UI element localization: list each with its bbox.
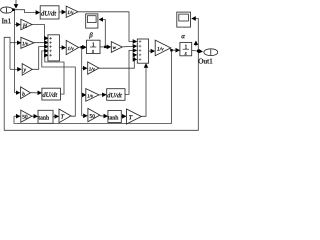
wire tanh2 to T2 gain bbox=[121, 115, 126, 117]
wire arrow into rowC-left 50 gain bbox=[14, 115, 20, 117]
denominator int1 bbox=[92, 50, 94, 53]
wire arrow into H gain bbox=[15, 24, 20, 26]
wire rowC-left 50 to tanh1 bbox=[32, 115, 37, 117]
label beta bbox=[89, 32, 92, 38]
value gain3 bbox=[68, 47, 74, 50]
integrator 1/s first bbox=[87, 40, 101, 53]
value rowB-right bbox=[87, 94, 93, 97]
value dU/dt 3 bbox=[107, 93, 122, 98]
fraction bar int2 bbox=[183, 48, 189, 51]
value rowA-left bbox=[23, 69, 26, 73]
saturation tanh 2 bbox=[108, 111, 121, 123]
wire rowB-left gain to dUdt2 bbox=[30, 92, 41, 94]
gain rowB-left bbox=[21, 87, 31, 99]
junction after gain3 bbox=[81, 46, 83, 48]
fraction bar int1 bbox=[90, 46, 96, 49]
wire dUdt3 chain to sum2 input3 bbox=[125, 50, 137, 94]
wire beta scope tap bbox=[99, 20, 105, 47]
derivative dU/dt 3 bbox=[107, 89, 125, 101]
wire arrow into gain2 from left bus bbox=[10, 42, 21, 44]
junction on int2 input bbox=[170, 49, 172, 51]
value gain2 bbox=[22, 42, 28, 45]
scope beta bbox=[86, 14, 98, 28]
value dU/dt 2 bbox=[43, 92, 58, 97]
gain after int1 bbox=[111, 42, 122, 53]
scope beta screen bbox=[88, 16, 97, 23]
value tanh2 bbox=[108, 115, 118, 119]
gain feedback 2 bbox=[21, 37, 34, 48]
wire gain2 to sum1 input2 bbox=[34, 42, 48, 44]
wire gain3 to int1 bbox=[79, 46, 86, 48]
gain H bbox=[21, 19, 32, 29]
wire dUdt2 chain to sum1 input5 bbox=[45, 55, 64, 94]
wire arrow into rowA-left gain bbox=[10, 68, 21, 70]
plus signs sum1 bbox=[49, 37, 52, 57]
wire gain5 to int2 bbox=[171, 48, 180, 50]
wire gain1a top line to sum2 input1 bbox=[78, 12, 137, 42]
gain after sum2 bbox=[155, 40, 171, 56]
label Out1 bbox=[198, 59, 212, 64]
wire top drop arrow above In1 junction bbox=[15, 0, 17, 8]
integrator 1/s second bbox=[180, 42, 192, 55]
value gain H bbox=[23, 24, 28, 28]
value T2 bbox=[129, 115, 132, 119]
junction on In1 output bbox=[12, 8, 15, 11]
gain 50 rowC-left bbox=[21, 110, 32, 122]
gain l 1a bbox=[66, 6, 78, 17]
wire stub sum2 input5 bbox=[134, 58, 137, 60]
value gain4 bbox=[113, 47, 116, 49]
gain T1 bbox=[59, 109, 71, 123]
wire rowC-right 50 to tanh2 bbox=[100, 115, 108, 117]
label In1 bbox=[2, 18, 11, 23]
value gain1a bbox=[67, 11, 73, 14]
value 50 left bbox=[23, 115, 28, 119]
gain after sum1 bbox=[66, 40, 78, 54]
digit 1 in In1 bbox=[5, 8, 8, 13]
wire sum2 to gain5 bbox=[149, 50, 155, 52]
wire rowB-right gain to dUdt3 bbox=[99, 94, 106, 96]
derivative dU/dt 1 bbox=[40, 6, 59, 19]
wire In1 drop line down to row B bbox=[14, 10, 16, 93]
wire H gain to sum1 input1 bbox=[32, 25, 48, 39]
numerator int2 bbox=[185, 45, 187, 49]
wire bus arrow into rowA-right gain bbox=[82, 67, 87, 69]
wire bus arrow into rowC-right 50 gain bbox=[82, 115, 87, 117]
wire outer feedback down right, along bottom, up left side bbox=[4, 37, 198, 130]
derivative dU/dt 2 bbox=[42, 88, 61, 100]
wire rowA-right to sum2 input4 bbox=[99, 55, 137, 68]
wire rowA-left to sum1 input3 bbox=[32, 47, 48, 70]
numerator int1 bbox=[92, 43, 94, 47]
wire inner feedback from int2 input junction bbox=[14, 50, 172, 123]
wire dUdt1 to gain1a bbox=[59, 11, 65, 13]
wire int1 to gain4 bbox=[100, 46, 111, 48]
wire tanh1 to T1 gain bbox=[53, 115, 58, 117]
wire T2 chain up into sum2 bottom input bbox=[141, 64, 146, 116]
gain rowA-right bbox=[88, 62, 99, 74]
denominator int2 bbox=[185, 52, 187, 55]
outport Out1 bbox=[204, 49, 218, 56]
junction on int1 output bbox=[104, 46, 106, 48]
value rowB-left bbox=[22, 92, 24, 96]
value gain5 bbox=[157, 47, 163, 51]
arrowhead up on alpha line bbox=[195, 41, 197, 46]
scope alpha screen bbox=[179, 14, 189, 21]
scope alpha bbox=[177, 12, 191, 27]
wire bus arrow into rowB-right gain bbox=[82, 94, 86, 96]
wire gain4 to sum2 input2 bbox=[122, 45, 136, 48]
inport In1 bbox=[1, 7, 13, 13]
value dU/dt 1 bbox=[41, 11, 56, 16]
sum block 2 bbox=[137, 39, 148, 63]
junction on int2 output bbox=[197, 50, 200, 53]
wire int2 to Out1 bbox=[192, 50, 203, 51]
gain T2 bbox=[127, 109, 142, 124]
value T1 bbox=[61, 115, 64, 119]
digit 1 in Out1 bbox=[209, 50, 212, 55]
sum block 1 bbox=[48, 35, 60, 61]
wire In1 to dUdt1 bbox=[11, 10, 39, 13]
gain rowA-left bbox=[22, 64, 32, 76]
wire alpha scope tap (junction up right side to scope) bbox=[192, 19, 198, 51]
value tanh1 bbox=[38, 115, 49, 119]
wire arrow into rowB-left gain bbox=[15, 92, 20, 94]
wire bus down from gain3 output junction bbox=[81, 47, 83, 116]
gain rowB-right bbox=[86, 89, 99, 102]
gain 50 rowC-right bbox=[88, 108, 100, 121]
value rowA-right bbox=[89, 67, 95, 70]
value 50 right bbox=[90, 114, 95, 118]
plus signs sum2 bbox=[139, 40, 142, 60]
label alpha bbox=[182, 35, 185, 38]
saturation tanh 1 bbox=[38, 110, 53, 123]
wire T1 chain to sum1 input4 bbox=[42, 51, 76, 116]
wire sum1 to gain3 bbox=[59, 47, 65, 49]
